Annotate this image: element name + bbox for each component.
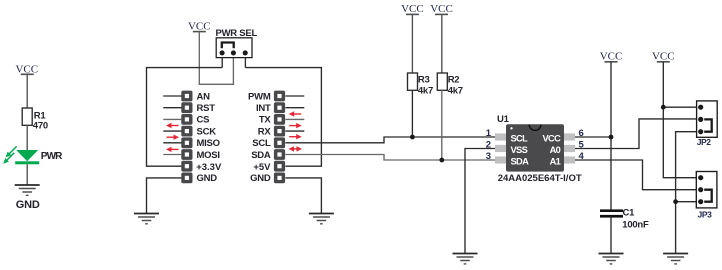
wire VCC to R1 (26, 74, 28, 108)
wire U1 pin 5 (A0) to JP2 pin 2 (575, 119, 701, 149)
ground (socket left) (134, 214, 159, 224)
wire LED to ground (26, 164, 28, 185)
mikroBUS socket outline left / +3.3V rail (147, 68, 223, 167)
power net VCC symbol (R3) (401, 3, 424, 15)
svg-text:2: 2 (486, 140, 491, 151)
wire INT stub (285, 107, 304, 109)
wire U1 pin 4 (A1) to JP3 pin 2 (575, 160, 701, 190)
svg-text:CS: CS (197, 115, 210, 126)
arrow SCK direction (167, 135, 180, 140)
wire CS stub (163, 118, 181, 120)
arrow CS direction (166, 123, 179, 128)
wire C1 to ground (610, 218, 612, 254)
wire PWM stub (285, 95, 304, 97)
svg-text:GND: GND (250, 173, 271, 184)
svg-text:VCC: VCC (401, 3, 424, 15)
power net VCC symbol (C1/U1) (600, 51, 623, 63)
svg-text:VCC: VCC (543, 133, 562, 143)
svg-text:24AA025E64T-I/OT: 24AA025E64T-I/OT (498, 173, 582, 184)
mikroBUS socket outline right / +5V rail (245, 68, 321, 167)
svg-text:MOSI: MOSI (197, 150, 220, 161)
jumper PWR SEL (216, 28, 258, 58)
wire MOSI stub (163, 154, 181, 156)
arrow INT direction (289, 111, 302, 116)
wire R3 to SCL (411, 90, 413, 137)
svg-text:INT: INT (256, 103, 271, 114)
svg-text:3: 3 (486, 151, 491, 162)
svg-text:SCL: SCL (511, 133, 529, 143)
svg-text:TX: TX (259, 115, 272, 126)
svg-text:A1: A1 (550, 156, 561, 166)
wire VCC to PWR SEL pin 2 (199, 32, 233, 85)
arrow RX direction (289, 134, 302, 139)
wire PWR SEL pin 3 to 5V rail (244, 58, 246, 68)
junction R2/SDA (439, 158, 444, 163)
svg-text:U1: U1 (497, 114, 510, 125)
wire RX stub (285, 130, 304, 132)
svg-text:C1: C1 (623, 207, 636, 218)
wire SDA net (socket to U1 pin 3) (285, 155, 495, 161)
svg-text:SDA: SDA (511, 156, 530, 166)
wire AN stub (163, 95, 181, 97)
svg-text:PWR: PWR (41, 151, 63, 162)
svg-text:A0: A0 (550, 145, 561, 155)
svg-text:MISO: MISO (197, 138, 220, 149)
wire SCK stub (163, 130, 181, 132)
wire VCC to R2 (441, 14, 443, 73)
arrow TX direction (289, 123, 302, 128)
svg-text:RST: RST (197, 103, 216, 114)
wire TX stub (285, 118, 304, 120)
svg-text:VCC: VCC (188, 21, 211, 33)
header CN1 left column (181, 91, 192, 184)
resistor R2 (437, 73, 463, 97)
wire R2 to SDA (441, 90, 443, 160)
wire RST stub (163, 107, 181, 109)
power net VCC symbol (R2) (430, 3, 453, 15)
jumper JP3 (696, 172, 717, 220)
resistor R3 (408, 73, 434, 97)
svg-text:1: 1 (486, 128, 492, 139)
wire VCC rail to JP2 pin1 / JP3 pin1 (663, 62, 700, 178)
ground (JP rail) (663, 254, 688, 264)
svg-text:JP2: JP2 (697, 137, 712, 147)
wire PWR SEL pin 1 to 3.3V rail (221, 58, 223, 68)
ground (VSS) (453, 254, 478, 264)
power net VCC symbol (JP rail) (652, 51, 675, 63)
svg-text:VCC: VCC (430, 3, 453, 15)
resistor R1 (22, 108, 48, 131)
wire VCC rail down to C1 (610, 62, 612, 210)
ground (socket right) (309, 214, 334, 224)
svg-text:RX: RX (258, 126, 272, 137)
svg-text:100nF: 100nF (622, 219, 649, 230)
svg-text:VCC: VCC (652, 51, 675, 63)
junction JP3 pin3 / ground rail (673, 199, 678, 204)
svg-text:GND: GND (16, 199, 40, 211)
wire GND right header to ground (285, 178, 321, 214)
ground (C1) (599, 254, 624, 264)
svg-text:SDA: SDA (251, 150, 271, 161)
wire JP3 pin 3 to ground rail (676, 201, 701, 203)
svg-text:SCL: SCL (252, 138, 271, 149)
wire VSS to ground (465, 149, 495, 254)
svg-text:R2: R2 (448, 74, 460, 85)
jumper JP2 (697, 101, 718, 147)
ground (LED) (15, 185, 40, 211)
wire VCC to R3 (411, 14, 413, 73)
op-amp/IC U1 24AA025E64T-I/OT (495, 114, 582, 184)
junction VCC/JP2 pin1 (661, 105, 666, 110)
capacitor C1 (600, 207, 649, 230)
svg-text:AN: AN (197, 91, 211, 102)
svg-text:4k7: 4k7 (448, 86, 463, 97)
wire junction to JP2 pin 1 (663, 106, 700, 108)
junction VCC/pin6 (609, 135, 614, 140)
svg-text:+5V: +5V (253, 162, 271, 173)
wire U1 pin 6 to VCC rail (575, 136, 611, 138)
arrow MISO direction (166, 147, 179, 152)
power net VCC symbol (LED branch) (15, 64, 38, 76)
wire GND left header to ground (147, 178, 182, 214)
svg-text:VCC: VCC (600, 51, 623, 63)
svg-text:JP3: JP3 (698, 209, 713, 219)
wire R1 to LED (26, 125, 28, 151)
svg-text:R3: R3 (418, 74, 430, 85)
svg-text:+3.3V: +3.3V (196, 162, 222, 173)
svg-text:GND: GND (197, 173, 218, 184)
arrow SDA direction (bidirectional) (289, 146, 303, 151)
wire MISO stub (163, 142, 181, 144)
junction R3/SCL (410, 135, 415, 140)
power net VCC symbol (PWR SEL) (188, 21, 211, 33)
svg-text:VSS: VSS (511, 145, 528, 155)
LED PWR (green) (3, 146, 63, 164)
wire JP2 pin 3 to ground rail (676, 132, 701, 254)
wire SCL net (socket to U1 pin 1) (285, 137, 495, 143)
svg-text:470: 470 (33, 120, 48, 131)
svg-text:4k7: 4k7 (418, 86, 433, 97)
header CN1 right column (274, 91, 285, 184)
svg-text:SCK: SCK (197, 126, 217, 137)
svg-text:PWM: PWM (248, 91, 271, 102)
